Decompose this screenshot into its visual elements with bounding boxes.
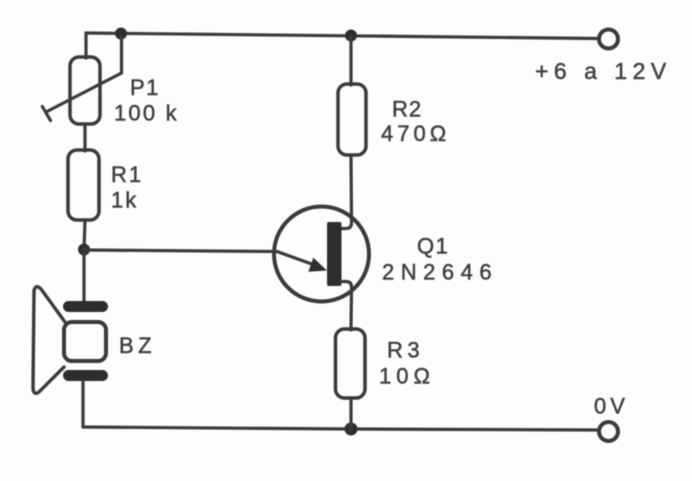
node: emitter junction [78, 244, 90, 256]
terminal: +6 a 12V supply [599, 30, 618, 49]
svg-text:0V: 0V [594, 394, 629, 419]
wire: left branch corner down to P1 top [84, 33, 87, 58]
node: wiper tap junction on top rail [115, 28, 127, 40]
wire: bottom ground rail [83, 427, 597, 430]
svg-text:R2: R2 [392, 97, 422, 122]
svg-text:+6 a 12V: +6 a 12V [535, 58, 672, 84]
wire: P1 to R1 [83, 124, 86, 151]
transistor Q1 (UJT 2N2646) [274, 207, 369, 302]
wire: R2 to Q1 base-two, with hook to bar [341, 155, 352, 229]
node: R2 top junction on top rail [345, 30, 357, 42]
node: B1 / R3 bottom junction [345, 423, 358, 436]
buzzer BZ [33, 287, 108, 394]
wire: R3 to bottom rail [349, 398, 352, 429]
svg-text:P1: P1 [130, 75, 160, 100]
resistor R1 body [68, 150, 99, 220]
wire: emitter horizontal run to Q1 [84, 250, 277, 252]
wire: R1 to emitter node [84, 220, 85, 250]
wire: top rail junction down to R2 [349, 36, 352, 85]
wire: top supply rail [86, 33, 598, 39]
wire: emitter node down to buzzer [82, 249, 85, 303]
resistor R3 body [336, 329, 366, 398]
wire: Q1 base-one hook down to R3 [341, 282, 352, 331]
svg-text:Q1: Q1 [417, 234, 449, 259]
svg-text:10Ω: 10Ω [379, 364, 435, 389]
svg-text:1k: 1k [111, 188, 138, 213]
svg-text:100 k: 100 k [114, 101, 179, 126]
potentiometer P1 body [70, 57, 100, 124]
svg-text:R1: R1 [111, 162, 143, 187]
svg-text:470Ω: 470Ω [381, 121, 450, 146]
svg-text:BZ: BZ [119, 333, 156, 358]
resistor R2 body [338, 84, 366, 155]
potentiometer P1 wiper arm [42, 36, 121, 121]
svg-text:R3: R3 [387, 338, 424, 363]
svg-text:2N2646: 2N2646 [382, 260, 498, 285]
terminal: 0V [599, 422, 618, 441]
wire: buzzer to bottom rail [81, 381, 84, 427]
